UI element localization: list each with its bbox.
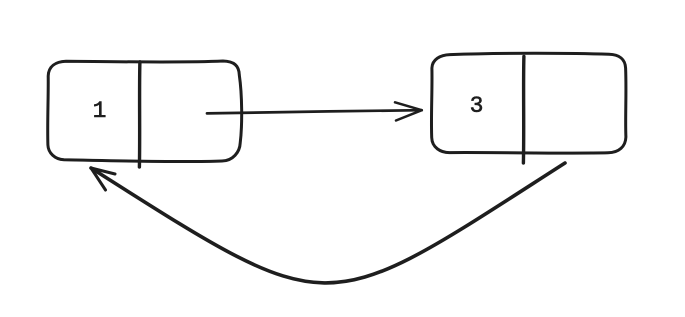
svg-text:3: 3 xyxy=(470,93,484,119)
next-pointer arrow shaft (node 1 -> node 3) xyxy=(207,110,422,113)
loop-back arrow shaft (node 3 -> node 1, curved) xyxy=(91,163,565,283)
node 3 divider xyxy=(522,57,526,164)
node 3 box xyxy=(431,53,625,153)
svg-text:1: 1 xyxy=(93,98,107,124)
node 1 box xyxy=(48,61,242,162)
node 1 value label "1" xyxy=(93,98,107,124)
next-pointer arrowhead xyxy=(395,102,422,120)
loop-back arrowhead xyxy=(91,168,115,190)
node 3 value label "3" xyxy=(470,93,484,119)
node 1 divider xyxy=(138,62,142,167)
